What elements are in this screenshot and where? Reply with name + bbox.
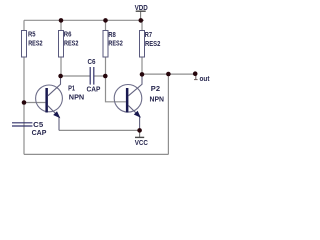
junction out terminal [193, 71, 198, 76]
resistor R5 [22, 31, 43, 58]
svg-text:RES2: RES2 [28, 40, 42, 47]
junction VCC / emitter rail [137, 128, 142, 133]
junction top R6 [59, 18, 64, 23]
wire emitter VCC rail [59, 129, 140, 131]
wire R8 top lead [105, 20, 107, 30]
capacitor C6 [87, 59, 101, 93]
junction node B (C6 right / Q2 base) [103, 74, 108, 79]
junction out wire / feedback vertical [166, 72, 171, 77]
svg-text:VDD: VDD [135, 5, 148, 12]
svg-text:R5: R5 [28, 32, 36, 39]
wire R8 bottom lead to node B [105, 57, 107, 76]
wire C6 right plate to node B [94, 75, 106, 77]
svg-text:P1: P1 [68, 85, 75, 92]
resistor R6 [59, 31, 79, 58]
power VCC symbol [135, 130, 148, 147]
svg-text:NPN: NPN [150, 97, 165, 104]
wire out horizontal [142, 73, 195, 75]
wire left vertical rail to R5 [23, 20, 25, 30]
svg-text:C5: C5 [33, 122, 43, 129]
transistor Q2 (P2 NPN) [114, 74, 164, 130]
wire node B down and right to Q2 base [106, 76, 126, 102]
wire R6 top lead [60, 20, 62, 30]
resistor R7 [140, 31, 161, 58]
svg-text:R8: R8 [108, 32, 116, 39]
wire R7 top lead [141, 20, 143, 30]
capacitor C5 [12, 122, 47, 137]
power VDD symbol [135, 5, 148, 20]
wire node A to C6 left plate [61, 75, 90, 77]
svg-text:R7: R7 [145, 32, 152, 39]
junction top R8 [103, 18, 108, 23]
resistor R8 [103, 31, 123, 58]
svg-text:out: out [200, 76, 211, 83]
wire bottom feedback rail [24, 153, 168, 155]
svg-text:CAP: CAP [87, 86, 101, 93]
wire R7 bottom lead to out node [141, 57, 143, 74]
svg-text:RES2: RES2 [64, 40, 78, 47]
wire right vertical feedback to out node [167, 74, 169, 154]
junction P1 base / C5 [22, 100, 27, 105]
junction P2 collector / R7 / out [140, 72, 145, 77]
svg-text:NPN: NPN [69, 95, 84, 102]
wire P1 base lead [24, 102, 45, 104]
transistor Q1 (P1 NPN) [36, 76, 85, 130]
wire R6 bottom lead to node A [60, 57, 62, 76]
svg-text:VCC: VCC [135, 140, 148, 147]
svg-text:C6: C6 [88, 59, 96, 66]
wire left vertical R5 through C5 to bottom rail [23, 57, 25, 154]
svg-text:RES2: RES2 [108, 41, 122, 48]
junction node A (P1 collector / C6 left) [58, 74, 63, 79]
wire top VDD rail [24, 19, 144, 21]
net label out port symbol [194, 76, 210, 84]
svg-text:RES2: RES2 [145, 41, 160, 48]
svg-text:CAP: CAP [32, 130, 47, 137]
svg-text:R6: R6 [64, 32, 72, 39]
svg-text:P2: P2 [151, 86, 160, 93]
junction top VDD / R7 [139, 18, 144, 23]
